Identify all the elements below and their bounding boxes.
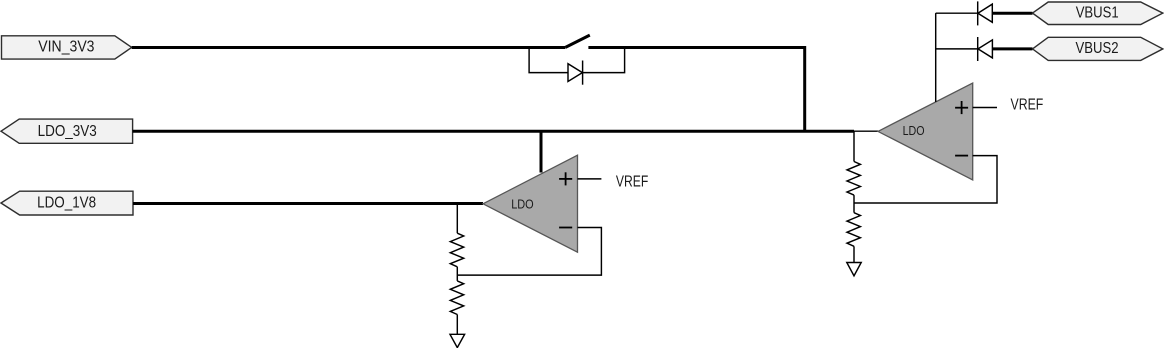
wire LDO_1V8 node down to R1	[456, 204, 458, 234]
diode D3 (VBUS2)	[978, 37, 993, 61]
wire R2 to ground	[456, 315, 458, 335]
wire VIN_3V3 to switch	[132, 46, 566, 49]
wire U1 feedback loop	[457, 228, 601, 276]
wire LDO_3V3 bus	[133, 130, 854, 133]
wire node to U2 input	[854, 130, 879, 132]
wire R4 to ground	[853, 246, 855, 262]
svg-text:VIN_3V3: VIN_3V3	[38, 39, 94, 56]
svg-text:LDO_3V3: LDO_3V3	[38, 123, 97, 140]
svg-text:VBUS2: VBUS2	[1076, 40, 1119, 57]
wire switch to corner node	[588, 48, 804, 133]
resistor R2	[450, 281, 463, 315]
resistor R3	[847, 162, 860, 196]
net flag VBUS1	[1033, 2, 1163, 25]
resistor R1	[450, 233, 463, 267]
LDO error amplifier U2	[878, 83, 973, 180]
net flag LDO_1V8	[1, 191, 133, 215]
svg-text:VREF: VREF	[1011, 96, 1044, 113]
wire R1 to R2 tap	[456, 267, 458, 281]
wire node down to R3	[853, 131, 855, 161]
wire LDO_1V8 to U1	[133, 202, 483, 205]
svg-text:LDO: LDO	[511, 196, 534, 211]
net flag VBUS2	[1033, 37, 1163, 60]
wire D3 to VBUS2 flag	[992, 47, 1032, 50]
bypass wire around switch	[529, 48, 625, 73]
LDO error amplifier U1	[483, 155, 578, 252]
svg-text:VREF: VREF	[616, 173, 648, 190]
diode D2 (VBUS1)	[978, 1, 993, 25]
resistor R4	[847, 213, 860, 247]
wire U2 feedback loop	[854, 156, 997, 203]
svg-text:LDO_1V8: LDO_1V8	[37, 195, 96, 212]
net flag LDO_3V3	[1, 119, 133, 143]
net flag VIN_3V3	[2, 36, 132, 59]
wire VBUS bus vertical	[935, 13, 937, 102]
wire D2 to VBUS1 flag	[992, 12, 1032, 15]
wire bus to D2	[936, 12, 978, 14]
VREF label at U2 + input	[973, 96, 1044, 113]
svg-text:LDO: LDO	[903, 123, 925, 138]
wire R3 to R4 tap	[853, 195, 855, 213]
switch S1 blade	[565, 35, 589, 47]
ground (left)	[450, 334, 465, 347]
ground (right)	[847, 263, 861, 276]
wire bus to D3	[936, 48, 978, 50]
diode D1 switch bypass	[568, 61, 583, 85]
svg-text:VBUS1: VBUS1	[1076, 4, 1119, 21]
VREF label at U1 + input	[578, 173, 649, 190]
wire stub LDO_3V3 to U1	[540, 131, 543, 172]
